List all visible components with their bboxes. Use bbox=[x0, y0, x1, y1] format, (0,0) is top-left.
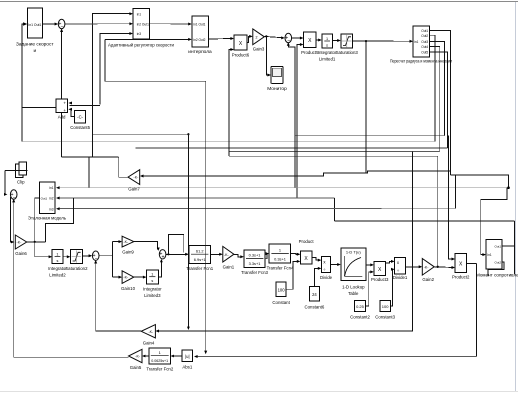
wire Integrator Limited2 to Saturation2 bbox=[63, 256, 69, 258]
svg-text:2: 2 bbox=[255, 35, 257, 39]
gain Gain4 bbox=[141, 325, 155, 338]
subsystem интерпола bbox=[192, 16, 208, 47]
svg-text:Product: Product bbox=[299, 239, 315, 244]
label Add bbox=[58, 115, 66, 120]
wire Момент Out1 stub bbox=[502, 245, 514, 247]
wire Gain10 out to Integrator Limited3 bbox=[134, 276, 146, 278]
label Abs1 bbox=[182, 365, 192, 370]
svg-text:0.0625s+1: 0.0625s+1 bbox=[151, 359, 168, 363]
svg-text:|u|: |u| bbox=[185, 354, 190, 359]
wire Gain6 out east bbox=[27, 241, 46, 243]
wire Gain1 to Transfer Fcn3 bbox=[234, 254, 243, 256]
svg-text:0.25: 0.25 bbox=[356, 304, 365, 309]
constant Constant6 bbox=[309, 286, 319, 301]
wire to Gain10 bbox=[112, 276, 121, 278]
label Integrator Limited1 bbox=[318, 50, 337, 62]
transfer function Transfer Fcn2 bbox=[149, 348, 171, 364]
wire Задание скорости Out1 to S1 bbox=[42, 23, 57, 25]
svg-text:in2 Out2: in2 Out2 bbox=[193, 38, 205, 42]
gain Gain2 bbox=[422, 259, 434, 276]
wire Constant 100 to Product bbox=[286, 261, 299, 289]
svg-text:Out1: Out1 bbox=[421, 29, 428, 33]
wire riser x21.9 to Задание скорости In1 bbox=[22, 24, 26, 141]
frame right border bbox=[515, 2, 517, 391]
svg-text:Gain4: Gain4 bbox=[143, 341, 155, 346]
label Divide bbox=[320, 275, 333, 280]
svg-text:Integrator: Integrator bbox=[143, 287, 162, 292]
label Transfer Fcn2 bbox=[146, 367, 173, 372]
wire Product to Divide bbox=[312, 258, 320, 261]
wire Add top input from riser bbox=[70, 104, 100, 106]
product Product5 bbox=[304, 32, 317, 47]
svg-text:+: + bbox=[63, 100, 66, 105]
label Монитор bbox=[267, 86, 287, 92]
label Constant5 bbox=[70, 125, 90, 130]
saturation Saturation3 bbox=[341, 34, 353, 48]
label Constant bbox=[272, 300, 290, 305]
sum S5 bbox=[159, 250, 166, 261]
svg-text:3.3s+1: 3.3s+1 bbox=[249, 261, 261, 266]
svg-text:1-D T(u): 1-D T(u) bbox=[346, 249, 361, 254]
wire Integrator Limited1 to Saturation3 bbox=[332, 40, 339, 42]
wire Transfer Fcn2 to Gain5 bbox=[143, 355, 149, 357]
wire Пересчет Out2 drop bbox=[429, 35, 435, 141]
wire Out1 route east y175 bbox=[451, 175, 509, 188]
label Transfer Fcn3 bbox=[241, 270, 268, 275]
svg-text:-C-: -C- bbox=[77, 114, 83, 119]
constant Constant5 bbox=[75, 110, 86, 123]
wire Пересчет Out5 drop bbox=[429, 52, 447, 148]
label Gain3 bbox=[253, 47, 265, 52]
label Эталонная модель bbox=[28, 216, 67, 221]
wire Gain4 out to S4 riser bbox=[96, 329, 142, 331]
svg-text:Constant6: Constant6 bbox=[304, 305, 324, 310]
wire Product6 out to Gain3 bbox=[247, 36, 252, 42]
wire riser x92.6 to Адаптивный in1 bbox=[93, 14, 132, 158]
svg-text:in3: in3 bbox=[137, 32, 141, 36]
svg-text:Transfer Fcn1: Transfer Fcn1 bbox=[186, 266, 213, 271]
sum S2 bbox=[285, 33, 292, 44]
wire riser x412 to Gain4 line bbox=[412, 152, 414, 330]
wire Gain9 out over to S5 bbox=[134, 242, 158, 250]
wire Add output west y107.5 bbox=[22, 107, 56, 109]
svg-text:-K-: -K- bbox=[134, 176, 140, 180]
svg-text:100: 100 bbox=[382, 304, 389, 309]
svg-text:0.3s+1: 0.3s+1 bbox=[249, 253, 261, 258]
svg-text:Constant3: Constant3 bbox=[375, 315, 395, 320]
label Transfer Fcn1 bbox=[186, 266, 213, 271]
constant Constant2 bbox=[355, 300, 366, 311]
svg-text:Divide: Divide bbox=[320, 275, 333, 280]
wire bus y151.5 bbox=[229, 151, 440, 153]
svg-text:in1: in1 bbox=[414, 40, 418, 44]
svg-text:Constant: Constant bbox=[272, 300, 290, 305]
svg-text:1-D Lookup: 1-D Lookup bbox=[342, 285, 365, 290]
wire drop to S3 left bbox=[5, 170, 6, 194]
svg-text:In1: In1 bbox=[487, 253, 492, 257]
svg-text:s: s bbox=[151, 279, 153, 283]
svg-text:in1: in1 bbox=[137, 12, 141, 16]
svg-text:6.9s+1: 6.9s+1 bbox=[194, 257, 206, 262]
transfer function Transfer Fcn1 bbox=[189, 246, 211, 264]
svg-text:Эталонная модель: Эталонная модель bbox=[28, 216, 67, 221]
abs Abs1 bbox=[182, 350, 193, 362]
svg-text:Gain3: Gain3 bbox=[253, 47, 265, 52]
wire riser x229 to Product6 in2 bbox=[229, 50, 233, 157]
svg-text:Clip: Clip bbox=[17, 180, 25, 185]
wire S1 bottom input from Add bbox=[61, 30, 63, 100]
subsystem Эталонная модель bbox=[40, 182, 55, 213]
sum block Add bbox=[56, 99, 68, 113]
svg-text:in2 Out1: in2 Out1 bbox=[137, 22, 149, 26]
label Момент сопротивления1 bbox=[476, 273, 518, 278]
wire Product2 route down to Abs net bbox=[475, 263, 477, 356]
svg-text:Abs1: Abs1 bbox=[182, 365, 192, 370]
wire bus Out2-to-In1 feedback y141 bbox=[22, 140, 435, 142]
label Saturation3 bbox=[336, 50, 359, 55]
wire Gain7 input line jogged bbox=[141, 171, 451, 176]
wire Divide1 to Gain2 bbox=[406, 266, 421, 268]
wire Gain5 out west to S3 riser bbox=[14, 356, 129, 358]
gain Gain9 bbox=[122, 236, 134, 247]
divide Divide bbox=[321, 257, 330, 273]
integrator Integrator Limited3 bbox=[147, 270, 159, 284]
transfer function Transfer Fcn4 bbox=[269, 244, 290, 263]
wire riser x89 y157-y188 bbox=[88, 157, 90, 188]
svg-text:Divide1: Divide1 bbox=[393, 275, 408, 280]
wire Abs net y356 gray bbox=[197, 356, 476, 358]
subsystem Задание скорости bbox=[27, 8, 42, 38]
wire S4 bottom riser bbox=[95, 261, 97, 329]
svg-text:s: s bbox=[56, 259, 58, 263]
wire Product3 to Divide1 bbox=[386, 261, 394, 263]
svg-text:in1: in1 bbox=[49, 186, 53, 190]
svg-text:in2: in2 bbox=[49, 197, 53, 201]
wire branch to Монитор scope bbox=[266, 36, 270, 75]
svg-text:0.3s+1: 0.3s+1 bbox=[274, 257, 286, 262]
label Gain10 bbox=[121, 286, 136, 291]
wire Add bottom drop x61.3 bbox=[60, 113, 62, 158]
lookup table 1-D Lookup Table bbox=[341, 248, 366, 280]
wire bus y188 to Эталонная in1 bbox=[58, 187, 509, 189]
label интерпола bbox=[188, 50, 212, 55]
svg-text:Out1: Out1 bbox=[494, 245, 501, 249]
svg-text:61.2: 61.2 bbox=[196, 248, 204, 253]
svg-text:Gain1: Gain1 bbox=[223, 265, 235, 270]
svg-text:Момент сопротивления1: Момент сопротивления1 bbox=[476, 273, 518, 278]
svg-text:-K-: -K- bbox=[148, 330, 154, 334]
product Product2 bbox=[455, 254, 466, 273]
label Product2 bbox=[452, 275, 470, 280]
product Product6 bbox=[234, 35, 247, 50]
svg-text:Gain10: Gain10 bbox=[121, 286, 136, 291]
svg-text:Limited1: Limited1 bbox=[319, 57, 336, 62]
wire Product5 in2 riser from bus y198 bbox=[297, 45, 302, 199]
wire Saturation2 to S4 bbox=[82, 255, 91, 257]
svg-text:интерпола: интерпола bbox=[188, 50, 212, 55]
svg-text:Out2: Out2 bbox=[421, 34, 428, 38]
gain Gain6 bbox=[15, 235, 26, 249]
svg-text:100: 100 bbox=[278, 287, 286, 292]
label Product6 bbox=[232, 53, 250, 58]
svg-text:Задание скорост: Задание скорост bbox=[16, 42, 54, 48]
wire Момент Out2 tail bbox=[488, 262, 504, 276]
label Integrator Limited2 bbox=[48, 266, 67, 278]
product Product3 bbox=[374, 262, 386, 276]
wire riser x437.7 Gain2-out branch bbox=[437, 156, 439, 267]
wire Gain3 out to S2 bbox=[264, 36, 283, 37]
subsystem Момент сопротивления1 bbox=[486, 239, 502, 269]
wire Clip input line bbox=[5, 169, 28, 171]
svg-text:Out5: Out5 bbox=[421, 51, 428, 55]
label Constant2 bbox=[350, 315, 370, 320]
svg-text:Product3: Product3 bbox=[371, 277, 389, 282]
svg-text:1: 1 bbox=[56, 253, 58, 257]
svg-text:Пересчет радиуса и момента ине: Пересчет радиуса и момента инерции bbox=[390, 59, 452, 64]
wire Product2 out bbox=[466, 262, 476, 264]
divide Divide1 bbox=[395, 257, 406, 274]
constant Constant3 bbox=[380, 300, 390, 311]
wire Transfer Fcn1 to Gain1 bbox=[211, 253, 222, 255]
gain Gain10 bbox=[122, 271, 134, 284]
wire Пересчет Out4 drop bbox=[429, 47, 439, 152]
wire riser x99.8 to Адаптивный in3 bbox=[100, 34, 132, 105]
svg-text:Gain9: Gain9 bbox=[122, 250, 134, 255]
svg-text:-K-: -K- bbox=[224, 253, 230, 257]
wire S3 bottom riser from y356 bbox=[13, 200, 15, 357]
svg-text:Constant2: Constant2 bbox=[350, 315, 370, 320]
label Transfer Fcn4 bbox=[267, 266, 294, 271]
wire riser x514 Момент Out1 net bbox=[513, 221, 515, 274]
transfer function Transfer Fcn3 bbox=[244, 250, 265, 268]
wire Gain6 route up to Эталонная in2 bbox=[45, 198, 73, 242]
label Задание скорости bbox=[16, 42, 54, 55]
label Пересчет радиуса и момента инерции bbox=[390, 59, 452, 64]
wire Constant6 24 to Divide bbox=[314, 268, 320, 286]
product Product bbox=[300, 251, 312, 264]
label Product5 bbox=[301, 50, 319, 55]
sum S3 bbox=[10, 190, 17, 201]
svg-text:Out3: Out3 bbox=[421, 40, 428, 44]
wire bus y135.7 bbox=[295, 135, 445, 137]
wire Transfer Fcn3 to Transfer Fcn4 bbox=[265, 254, 268, 259]
label Constant6 bbox=[304, 305, 324, 310]
wire Пересчет Out1 drop bbox=[429, 31, 450, 176]
wire Lookup Table to Product3 bbox=[366, 264, 373, 266]
wire Эталонная Out1 west-down to Integrator path bbox=[35, 198, 40, 242]
svg-text:Product2: Product2 bbox=[452, 275, 470, 280]
wire bus y148 bbox=[136, 147, 448, 149]
wire Transfer Fcn4 to Product bbox=[291, 253, 300, 256]
wire S3 out down to Gain6 bbox=[10, 197, 13, 242]
svg-text:Integrator: Integrator bbox=[318, 50, 337, 55]
svg-text:-K-: -K- bbox=[123, 240, 129, 244]
wire Адаптивный Out1 to интерпол in1 bbox=[149, 23, 190, 25]
svg-text:Out4: Out4 bbox=[421, 45, 428, 49]
wire Product5 out to Integrator Limited1 bbox=[316, 39, 321, 41]
sum S4 bbox=[92, 251, 99, 262]
svg-text:s: s bbox=[326, 44, 328, 48]
wire riser x455 y175-y208 bbox=[454, 175, 456, 209]
svg-text:−: − bbox=[60, 24, 63, 30]
svg-text:Constant5: Constant5 bbox=[70, 125, 90, 130]
svg-text:Limited3: Limited3 bbox=[144, 293, 161, 298]
wire Constant2 0.25 to Product3 bbox=[365, 272, 372, 306]
wire riser интерпол in2 feed x104.9 over to x205.7 down to Abs net bbox=[105, 39, 206, 351]
wire to Gain9 bbox=[112, 241, 121, 243]
label Clip bbox=[17, 180, 25, 185]
wire bus y157 Gain7-net bbox=[61, 156, 118, 158]
wire S5 out to Transfer Fcn1 bbox=[166, 253, 188, 255]
svg-text:24: 24 bbox=[312, 292, 317, 297]
gain Gain1 bbox=[223, 246, 234, 262]
label Gain4 bbox=[143, 341, 155, 346]
label Integrator Limited3 bbox=[143, 287, 162, 299]
svg-text:Out2: Out2 bbox=[494, 261, 501, 265]
svg-text:-K-: -K- bbox=[135, 355, 141, 359]
label Product bbox=[299, 239, 315, 244]
wire bus y198 to Эталонная in2 bbox=[58, 197, 334, 199]
label Gain5 bbox=[130, 365, 142, 370]
svg-text:Saturation2: Saturation2 bbox=[65, 266, 88, 271]
svg-text:Монитор: Монитор bbox=[267, 86, 287, 92]
svg-text:Адаптивный регулятор скорости: Адаптивный регулятор скорости bbox=[108, 43, 175, 48]
wire riser x334 y198-y221 bbox=[333, 198, 335, 221]
wire Пересчет Out3 drop bbox=[429, 41, 444, 135]
svg-text:−: − bbox=[95, 256, 98, 262]
svg-text:Gain7: Gain7 bbox=[128, 187, 140, 192]
label Gain2 bbox=[422, 277, 434, 282]
sum S1 bbox=[58, 19, 65, 30]
label Gain9 bbox=[122, 250, 134, 255]
wire S2 out to Product5 bbox=[292, 37, 303, 39]
svg-text:+: + bbox=[161, 255, 164, 261]
wire Gain2 out to Product2 bbox=[434, 266, 454, 269]
svg-text:-K-: -K- bbox=[424, 265, 430, 269]
scope Монитор bbox=[271, 67, 283, 84]
integrator Integrator Limited2 bbox=[52, 250, 63, 264]
label Gain1 bbox=[223, 265, 235, 270]
svg-text:Gain5: Gain5 bbox=[130, 365, 142, 370]
wire Момент In1 feed bbox=[481, 188, 509, 255]
svg-text:Gain2: Gain2 bbox=[422, 277, 434, 282]
svg-text:in3: in3 bbox=[49, 208, 53, 212]
wire Constant3 100 to Divide1 bbox=[390, 269, 393, 306]
wire Integrator Limited3 to S5 bottom bbox=[158, 260, 161, 277]
wire bus y208 to Эталонная in3 bbox=[58, 207, 455, 209]
svg-text:1: 1 bbox=[151, 273, 153, 277]
subsystem Адаптивный регулятор скорости bbox=[133, 9, 149, 39]
svg-text:Transfer Fcn3: Transfer Fcn3 bbox=[241, 270, 268, 275]
svg-text:Limited2: Limited2 bbox=[49, 273, 66, 278]
gain Gain3 bbox=[253, 29, 264, 45]
wire Gain4 input line y329-331 bbox=[157, 329, 413, 331]
wire Abs1 to Transfer Fcn2 bbox=[172, 355, 182, 357]
label Gain6 bbox=[15, 251, 27, 256]
scope Clip bbox=[15, 162, 26, 177]
svg-text:Product6: Product6 bbox=[232, 53, 250, 58]
frame top border bbox=[0, 1, 518, 3]
integrator Integrator Limited1 bbox=[322, 34, 333, 48]
svg-text:1: 1 bbox=[326, 37, 328, 41]
label Saturation2 bbox=[65, 266, 88, 271]
svg-text:Gain6: Gain6 bbox=[15, 251, 27, 256]
svg-text:Transfer Fcn4: Transfer Fcn4 bbox=[267, 266, 294, 271]
svg-text:Transfer Fcn2: Transfer Fcn2 bbox=[146, 367, 173, 372]
svg-text:Table: Table bbox=[348, 291, 359, 296]
svg-text:Saturation3: Saturation3 bbox=[336, 50, 359, 55]
label Constant3 bbox=[375, 315, 395, 320]
label Divide1 bbox=[393, 275, 408, 280]
wire Divide to Lookup Table bbox=[331, 264, 340, 266]
wire bus Gain2-out y156 bbox=[229, 155, 438, 157]
wire S4 out branch bbox=[99, 255, 112, 257]
wire S1 to Адаптивный in2 bbox=[65, 23, 131, 25]
wire интерпол in2 feed bbox=[105, 38, 190, 40]
svg-text:In1 Out1: In1 Out1 bbox=[28, 23, 41, 27]
constant Constant bbox=[276, 282, 286, 296]
wire Saturation3 to Пересчет in1 bbox=[353, 40, 412, 42]
wire riser x448 to Product2 in1 bbox=[449, 136, 454, 259]
wire bus y134 drop to Gain4 line bbox=[187, 134, 189, 328]
svg-text:Out1: Out1 bbox=[41, 197, 48, 201]
frame bottom border bbox=[0, 391, 518, 393]
subsystem Пересчет радиуса и момента инерции bbox=[413, 26, 429, 57]
svg-text:-K-: -K- bbox=[17, 241, 23, 245]
svg-text:in1 Out1: in1 Out1 bbox=[193, 23, 205, 27]
wire Constant5 to Add bbox=[70, 109, 75, 116]
svg-text:+: + bbox=[63, 108, 66, 113]
wire bus y221 bbox=[334, 220, 514, 222]
wire branch split x112 bbox=[111, 242, 113, 278]
wire Gain7 out to riser x118.7 bbox=[119, 157, 128, 177]
wire jog x229 between buses bbox=[228, 148, 230, 156]
label Адаптивный регулятор скорости bbox=[108, 43, 175, 48]
wire bus y134 bbox=[93, 133, 189, 135]
label Product3 bbox=[371, 277, 389, 282]
wire S5 over-route bbox=[168, 235, 183, 255]
svg-text:и: и bbox=[33, 49, 36, 54]
gain Gain5 bbox=[129, 349, 143, 362]
svg-text:1: 1 bbox=[279, 248, 281, 253]
saturation Saturation2 bbox=[70, 250, 82, 264]
svg-text:-K-: -K- bbox=[123, 276, 129, 280]
gain Gain7 bbox=[128, 170, 140, 185]
wire S2 bottom riser from bus y188 bbox=[288, 43, 295, 187]
svg-text:Add: Add bbox=[58, 115, 66, 120]
label 1-D Lookup Table bbox=[342, 285, 365, 297]
wire интерпол Out2 to Product6 bbox=[208, 38, 233, 41]
svg-text:−: − bbox=[13, 195, 16, 201]
svg-text:−: − bbox=[287, 38, 290, 44]
label Gain7 bbox=[128, 187, 140, 192]
wire branch down to Integrator Limited2 bbox=[35, 242, 51, 257]
wire Saturation3 branch down x366 bbox=[365, 41, 367, 173]
svg-text:Product5: Product5 bbox=[301, 50, 319, 55]
